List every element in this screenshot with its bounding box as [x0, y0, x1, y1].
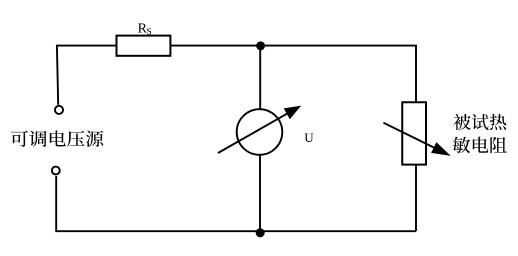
- label char 可 (source label): [11, 131, 28, 147]
- label char 阻 (thermistor label line2): [490, 137, 506, 153]
- thermistor arrowhead: [431, 142, 451, 156]
- terminal circle top (+): [55, 106, 63, 114]
- label char 试 (thermistor label line1): [472, 114, 489, 130]
- label char 电 (thermistor label line2): [473, 137, 489, 153]
- wire bottom horizontal: [56, 176, 416, 231]
- wire source top terminal to resistor RS: [57, 46, 116, 105]
- label char 调 (source label): [29, 131, 46, 147]
- label char 热 (thermistor label line1): [490, 114, 507, 130]
- node A junction dot: [256, 41, 265, 50]
- node B junction dot: [256, 228, 265, 237]
- resistor RS body: [117, 36, 171, 56]
- voltmeter U body circle: [237, 109, 283, 155]
- terminal circle bottom (-): [52, 167, 60, 175]
- label char 电 (source label): [50, 130, 66, 146]
- wire node A to voltmeter top: [259, 46, 261, 109]
- voltmeter arrow shaft: [218, 107, 298, 153]
- label char 被 (thermistor label line1): [454, 114, 471, 130]
- voltmeter arrowhead: [284, 106, 302, 120]
- wire thermistor bottom to bottom rail: [415, 165, 417, 232]
- label char 源 (source label): [86, 131, 104, 147]
- wire voltmeter bottom to node B: [259, 155, 261, 231]
- label char 敏 (thermistor label line2): [453, 137, 470, 154]
- thermistor RT body (rectangle): [402, 102, 426, 164]
- wire resistor to top-right corner through node A: [171, 46, 416, 103]
- svg-text:U: U: [304, 130, 314, 145]
- label char 压 (source label): [67, 131, 85, 147]
- thermistor arrow shaft: [383, 123, 446, 154]
